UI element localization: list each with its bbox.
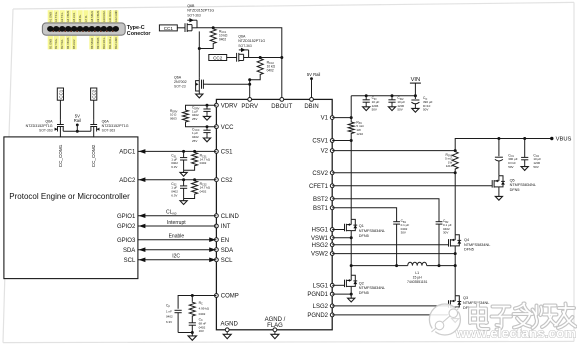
svg-text:CC1: CC1: [164, 26, 174, 31]
svg-text:VIN: VIN: [411, 77, 421, 83]
inductor L1 15uH: [408, 262, 427, 265]
svg-text:0402: 0402: [267, 69, 274, 73]
capacitor CO 390uF electrolytic: [411, 100, 419, 106]
svg-text:VDRV: VDRV: [221, 103, 238, 109]
svg-text:50V: 50V: [508, 165, 513, 169]
label Q4 NTMFS5834NL DFN5: [464, 238, 490, 252]
resistor RDRV 10 Ohm: [183, 109, 189, 123]
watermark elecfans logo circle: [429, 304, 460, 335]
wire VDRV net: [186, 104, 217, 109]
svg-text:Enable: Enable: [169, 234, 185, 240]
label CO 390uF 50V: [423, 96, 433, 111]
IC U1 bottom pins AGND and AGND/FLAG: [221, 317, 286, 332]
transistor Q4 NTMFS5834NL: [449, 235, 462, 253]
wire GPIO1 to CLIND (net CL_IND): [138, 213, 217, 218]
svg-text:AGND: AGND: [221, 322, 239, 328]
wire Q6B source down to Q6A-2N7002 drain: [198, 31, 200, 77]
svg-text:50V: 50V: [397, 108, 402, 112]
power 5V Rail at DBIN: [307, 72, 321, 99]
transistor Q6A NTZD3152PT1G (CC_COM2): [90, 120, 99, 137]
label CB1 0.1uF 0402 30V: [401, 219, 410, 234]
svg-text:NTMFS5834NL: NTMFS5834NL: [464, 243, 490, 247]
ground below CIN2: [388, 105, 395, 111]
svg-text:Protocol Engine or Microcontro: Protocol Engine or Microcontroller: [9, 192, 130, 201]
svg-text:ADC1: ADC1: [119, 150, 136, 156]
wire BST2 to CB2: [332, 199, 439, 222]
capacitor CC 68nF: [189, 317, 196, 334]
svg-text:BST2: BST2: [313, 197, 329, 203]
MCU pin labels: [117, 150, 136, 264]
svg-text:A4 VBUS: A4 VBUS: [66, 10, 70, 22]
capacitor CB1 0.1uF: [393, 222, 400, 267]
capacitor CIN2 10uF: [388, 96, 395, 105]
svg-text:B5 CC2: B5 CC2: [72, 39, 76, 49]
svg-text:A8 SBU1: A8 SBU1: [90, 10, 94, 22]
svg-text:SCL: SCL: [124, 258, 136, 264]
wire V2 net: [332, 149, 457, 152]
net label CC1 (rotated, left): [57, 88, 63, 100]
svg-text:DBIN: DBIN: [304, 104, 318, 110]
wire CC1 down to Q6A pair: [59, 100, 61, 120]
svg-text:GPIO2: GPIO2: [117, 224, 136, 230]
resistor RSV 5mOhm sense: [348, 121, 354, 135]
label Q6A NTZD3152PT1G SOT-363 (right): [102, 120, 129, 133]
ground below Q2: [348, 296, 355, 302]
wire CFET1 to Q5 gate: [332, 185, 492, 187]
label CVCC 1uF 0402 25V: [192, 127, 200, 142]
connector J1 Type-C receptacle body: [42, 23, 125, 35]
label RCC2 10k 0402: [267, 60, 276, 72]
svg-text:25V: 25V: [192, 139, 197, 143]
power 5V Rail (CC pair): [74, 113, 81, 132]
capacitor CS1 1uF: [180, 151, 187, 170]
svg-text:VSW2: VSW2: [311, 252, 329, 258]
ground below CDRV: [203, 114, 210, 120]
svg-text:SCL: SCL: [221, 258, 233, 264]
svg-text:VCC: VCC: [221, 125, 234, 131]
wire LSG2 to Q3 gate: [332, 305, 448, 307]
wire CSV2 net: [332, 170, 457, 235]
ground below Q3: [452, 316, 459, 322]
connector J1 bottom pin labels (B-side, highlighted): [48, 36, 119, 50]
svg-text:DFN5: DFN5: [359, 291, 369, 295]
transistor Q5 NTMFS5834NL: [492, 176, 505, 194]
svg-text:CS2: CS2: [221, 178, 233, 184]
label CB2 0.1uF 0402 30V: [443, 219, 452, 234]
svg-text:6.3V: 6.3V: [171, 193, 177, 197]
power terminal VIN: [410, 77, 421, 99]
svg-text:Q6A: Q6A: [174, 75, 182, 79]
capacitor CO1 390uF electrolytic: [495, 139, 503, 176]
svg-text:B11 RX1+: B11 RX1+: [108, 36, 112, 49]
capacitor CDRV 1uF: [203, 105, 210, 114]
wire CSV1 net: [332, 140, 351, 142]
svg-text:SDA: SDA: [123, 248, 135, 254]
IC U1 left pins: [215, 103, 240, 299]
label Q1 NTMFS5834NL DFN5: [359, 224, 385, 238]
ground below CO: [412, 106, 419, 112]
svg-text:ADC2: ADC2: [119, 178, 136, 184]
svg-text:PGND2: PGND2: [307, 313, 328, 319]
op-amp/controller IC U1 body: [216, 99, 332, 329]
wire RCC1 to Q6B source rail: [198, 45, 213, 51]
wire CC_COM2 into MCU: [93, 136, 95, 139]
label CO2 10uF 1206 50V: [533, 153, 541, 168]
label CS2 1uF 0402 6.3V: [171, 182, 178, 197]
svg-text:NTZD3152PT1G: NTZD3152PT1G: [238, 39, 265, 43]
label RCS1 14.7k 0402: [200, 154, 211, 166]
ground below 2N7002: [196, 92, 203, 98]
svg-text:0402: 0402: [166, 315, 173, 319]
svg-text:B1 GND: B1 GND: [48, 39, 52, 49]
wire CC1 to Q6B: [177, 27, 185, 29]
svg-text:A9 VBUS: A9 VBUS: [96, 10, 100, 22]
svg-text:CC2: CC2: [213, 55, 223, 60]
svg-text:B2 TX2+: B2 TX2+: [54, 38, 58, 49]
svg-text:Q6B: Q6B: [187, 4, 195, 8]
svg-text:DFN5: DFN5: [510, 188, 520, 192]
svg-text:HSG1: HSG1: [312, 228, 329, 234]
svg-text:SOT-363: SOT-363: [187, 14, 201, 18]
svg-text:B8 SBU2: B8 SBU2: [90, 37, 94, 49]
svg-text:SDA: SDA: [221, 248, 233, 254]
svg-text:CC2: CC2: [92, 89, 97, 98]
wire RCC2 to PDRV node: [248, 76, 260, 82]
svg-text:5V Rail: 5V Rail: [307, 72, 321, 77]
label CIN1 10uF 1206 50V: [372, 96, 380, 111]
svg-text:RC: RC: [199, 301, 203, 306]
svg-text:A11 RX2+: A11 RX2+: [108, 9, 112, 22]
svg-text:A7 D-: A7 D-: [84, 15, 88, 22]
svg-text:NTZD3152PT1G: NTZD3152PT1G: [102, 124, 129, 128]
svg-text:16V: 16V: [199, 329, 204, 333]
svg-text:6.3V: 6.3V: [171, 165, 177, 169]
resistor RSV2 5mOhm sense: [452, 151, 458, 170]
ground below CIN1: [363, 105, 370, 111]
svg-text:SOT-363: SOT-363: [39, 129, 53, 133]
svg-text:B10 RX1-: B10 RX1-: [102, 37, 106, 49]
capacitor CIN1 10uF: [363, 96, 370, 105]
svg-text:CLIND: CLIND: [221, 214, 240, 220]
svg-text:CS1: CS1: [221, 150, 233, 156]
svg-text:Q4: Q4: [464, 238, 469, 242]
net label CC2 (rotated, right): [91, 88, 97, 100]
connector J1 top pin labels (A1-A12, highlighted): [48, 9, 119, 22]
wire ADC to CS1 net: [138, 150, 217, 153]
IC U1 right pins: [307, 116, 334, 319]
label RSV2 5mOhm 1W 1210: [445, 153, 453, 168]
svg-text:COMP: COMP: [221, 294, 239, 300]
ground below CS2: [180, 199, 187, 205]
svg-text:A3 TX1-: A3 TX1-: [60, 12, 64, 22]
ground below CS1: [180, 170, 187, 176]
svg-text:Q5: Q5: [510, 178, 515, 182]
capacitor CS2 1uF: [180, 180, 187, 199]
label CP 1nF 0402 6.3V: [166, 304, 173, 324]
svg-text:SOT-23: SOT-23: [174, 85, 186, 89]
wire PGND2 net: [332, 313, 457, 316]
wire HSG1 to Q1 gate: [332, 229, 344, 231]
svg-text:DFN5: DFN5: [464, 248, 474, 252]
svg-text:CC_COM1: CC_COM1: [58, 144, 63, 167]
svg-text:FLAG: FLAG: [267, 323, 283, 329]
svg-text:50V: 50V: [372, 108, 377, 112]
label RSV 5mOhm 1W 1210: [356, 120, 364, 135]
svg-text:PDRV: PDRV: [241, 104, 258, 110]
svg-text:A6 D+: A6 D+: [78, 14, 82, 22]
wire Q6B drain to DBOUT (node DBOUT): [197, 26, 283, 99]
microcontroller block U2: [4, 137, 138, 279]
svg-text:EN: EN: [221, 238, 229, 244]
wire GPIO2 to INT (net Interrupt): [138, 224, 217, 229]
capacitor CVCC 1uF: [203, 127, 210, 136]
capacitor CP 1nF: [175, 310, 193, 332]
svg-text:A1 GND: A1 GND: [48, 12, 52, 22]
resistor RCS1 14.7k: [184, 151, 198, 170]
svg-text:PGND1: PGND1: [307, 292, 328, 298]
svg-text:B9 VBUS: B9 VBUS: [96, 37, 100, 49]
label Q3 NTMFS5834NL DFN5: [463, 296, 489, 310]
transistor Q6A NTZD3152PT1G (CC2 side): [237, 48, 249, 62]
capacitor CO2 10uF: [521, 139, 528, 165]
wire CC2 down to Q6A pair: [93, 100, 95, 120]
svg-text:1 nF: 1 nF: [166, 309, 172, 313]
svg-text:HSG2: HSG2: [312, 243, 329, 249]
wire BST1 to CB1: [332, 208, 396, 222]
wire PGND1 net: [332, 293, 353, 296]
ground below COMP network: [188, 333, 196, 341]
transistor Q1 NTMFS5834NL: [345, 219, 358, 237]
wire COMP net: [178, 294, 216, 309]
svg-text:A10 RX2-: A10 RX2-: [102, 10, 106, 22]
wire SDA net: [138, 247, 217, 252]
svg-text:0402: 0402: [219, 38, 226, 42]
svg-text:VSW1: VSW1: [311, 236, 329, 242]
svg-text:Conector: Conector: [127, 31, 152, 37]
ground below CO2: [521, 164, 528, 170]
svg-text:Type-C: Type-C: [127, 25, 145, 31]
svg-text:CC1: CC1: [58, 89, 63, 98]
svg-text:A5 CC1: A5 CC1: [72, 12, 76, 22]
wire VCC net: [186, 123, 217, 128]
svg-text:CSV1: CSV1: [312, 139, 328, 145]
svg-text:B3 TX2-: B3 TX2-: [60, 39, 64, 49]
ground below Q5: [495, 194, 502, 200]
svg-text:V1: V1: [321, 116, 329, 122]
wire GPIO3 to EN (net Enable): [138, 237, 217, 242]
wire 2N7002 gate to PDRV node: [208, 83, 250, 85]
label Q6A NTZD3152PT1G SOT-363: [238, 34, 265, 48]
svg-text:V2: V2: [321, 149, 329, 155]
wire Q2 drain to switch node: [350, 266, 352, 276]
transistor Q2 NTMFS5834NL: [345, 275, 358, 293]
net label CC1 (top): [159, 25, 177, 31]
transistor Q6B NTZD3152PT1G: [185, 18, 197, 32]
svg-text:SOT-363: SOT-363: [238, 44, 252, 48]
label CDRV 1uF 0402 25V: [192, 106, 200, 121]
svg-text:74403551151: 74403551151: [407, 280, 428, 284]
svg-text:www.elecfans.com: www.elecfans.com: [455, 326, 577, 341]
label Q6A NTZD3152PT1G SOT-363 (left): [26, 120, 54, 133]
label RCC1 10k 0402: [219, 29, 228, 41]
svg-text:NTZD3152PT1G: NTZD3152PT1G: [187, 9, 214, 13]
wire ADC to CS2 net: [138, 178, 217, 181]
wire V1 net: [332, 116, 353, 119]
wire VIN rail to V1: [351, 94, 417, 121]
wire CC_COM1 into MCU: [59, 136, 61, 139]
capacitor CB2 0.1uF: [436, 222, 443, 267]
svg-text:50V: 50V: [423, 108, 428, 112]
wire node PDRV vertical: [248, 80, 251, 100]
svg-text:1210: 1210: [446, 164, 453, 168]
svg-text:Q6A: Q6A: [102, 120, 110, 124]
svg-text:SOT-363: SOT-363: [102, 129, 116, 133]
svg-text:GPIO1: GPIO1: [117, 214, 136, 220]
wire RSV to CSV1 and down to Q1: [350, 135, 353, 220]
arrow into MCU (ADC1): [139, 149, 146, 154]
svg-text:0402: 0402: [200, 190, 207, 194]
svg-text:CC_COM2: CC_COM2: [91, 144, 96, 167]
svg-text:Rail: Rail: [74, 118, 81, 123]
wire VSW2 net: [332, 252, 457, 266]
svg-text:Interrupt: Interrupt: [167, 220, 186, 226]
IC U1 top pins PDRV DBOUT DBIN: [241, 98, 318, 111]
svg-text:0402: 0402: [200, 161, 207, 165]
label RDRV 10 0603: [170, 109, 178, 121]
label Q6A 2N7002 SOT-23: [174, 75, 187, 88]
label L1 15uH 74403551151: [407, 271, 428, 284]
svg-text:NTZD3152PT1G: NTZD3152PT1G: [26, 124, 53, 128]
wire switch node to L1 (left): [350, 264, 408, 267]
label CS1 1uF 0402 6.3V: [171, 154, 178, 169]
svg-text:B12 GND: B12 GND: [114, 37, 118, 49]
label CO1 390uF 50V: [508, 153, 518, 168]
svg-text:VBUS: VBUS: [556, 137, 572, 143]
arrow into MCU (ADC2): [139, 177, 146, 182]
label Q6B NTZD3152PT1G SOT-363: [187, 4, 214, 18]
svg-text:CSV2: CSV2: [312, 171, 328, 177]
wire 5V rail between Q6A pair: [63, 130, 91, 132]
resistor RCC1 10k: [210, 28, 216, 45]
resistor RCC2 10k: [257, 58, 263, 76]
svg-text:I2C: I2C: [172, 253, 180, 259]
svg-text:30V: 30V: [443, 231, 448, 235]
svg-text:LSG2: LSG2: [313, 304, 329, 310]
svg-text:NTMFS5834NL: NTMFS5834NL: [359, 286, 385, 290]
svg-text:LSG1: LSG1: [313, 283, 329, 289]
svg-text:BST1: BST1: [313, 206, 329, 212]
svg-text:50V: 50V: [533, 165, 538, 169]
svg-text:30V: 30V: [401, 231, 406, 235]
svg-text:A2 TX1+: A2 TX1+: [54, 11, 58, 22]
svg-text:4.99 kΩ: 4.99 kΩ: [199, 307, 210, 311]
svg-text:A12 GND: A12 GND: [114, 10, 118, 22]
transistor Q3 NTMFS5834NL: [449, 296, 462, 314]
svg-text:INT: INT: [221, 224, 231, 230]
label CIN2 10uF 1206 50V: [397, 96, 405, 111]
ground at AGND: [223, 332, 231, 339]
ground below CVCC: [203, 136, 210, 142]
svg-text:AGND /: AGND /: [265, 317, 286, 323]
svg-text:0402: 0402: [199, 312, 206, 316]
svg-text:1210: 1210: [356, 132, 363, 136]
resistor RC 4.99k: [189, 296, 195, 318]
label Q2 NTMFS5834NL DFN5: [359, 281, 385, 295]
svg-text:L1: L1: [415, 271, 419, 275]
svg-text:Q3: Q3: [463, 296, 468, 300]
wire SCL net: [138, 258, 217, 263]
wire switch node to L1 (right): [427, 264, 457, 267]
svg-text:NTMFS5834NL: NTMFS5834NL: [510, 183, 536, 187]
wire Q3 drain from switch node: [454, 266, 456, 296]
svg-text:Q6A: Q6A: [238, 34, 246, 38]
connector label "Type-C Conector": [127, 25, 152, 37]
svg-text:25V: 25V: [192, 117, 197, 121]
svg-text:2N7002: 2N7002: [174, 80, 187, 84]
ground at AGND/FLAG: [271, 332, 279, 339]
resistor RCS2 14.7k: [184, 180, 198, 199]
svg-text:DFN5: DFN5: [359, 234, 369, 238]
svg-text:B4 VBUS: B4 VBUS: [66, 37, 70, 49]
net label CC2: [209, 55, 227, 61]
svg-text:GPIO3: GPIO3: [117, 238, 136, 244]
label Q5 NTMFS5834NL DFN5: [510, 178, 536, 192]
wire VSW1 net: [332, 236, 353, 265]
svg-text:NTMFS5834NL: NTMFS5834NL: [359, 229, 385, 233]
wire Q6A output to DBOUT node: [249, 56, 282, 59]
watermark chinese glyphs: [470, 304, 576, 330]
label RC 4.99k 0402: [199, 301, 210, 316]
label RCS2 14.7k 0402: [200, 182, 211, 194]
wire LSG1 to Q2 gate: [332, 284, 344, 286]
svg-text:CFET1: CFET1: [309, 184, 329, 190]
svg-text:Q6A: Q6A: [45, 120, 53, 124]
svg-text:Q1: Q1: [359, 224, 364, 228]
transistor Q6A NTZD3152PT1G (CC_COM1): [55, 120, 64, 137]
svg-text:6.3V: 6.3V: [166, 320, 172, 324]
transistor Q6A 2N7002: [196, 78, 208, 92]
svg-text:15 µH: 15 µH: [413, 276, 423, 280]
wire CC2 to Q6A: [227, 57, 237, 59]
svg-text:DBOUT: DBOUT: [271, 104, 292, 110]
wire VBUS rail: [455, 137, 553, 151]
svg-text:Q2: Q2: [359, 281, 364, 285]
svg-text:0603: 0603: [170, 116, 177, 120]
wire HSG2 to Q4 gate: [332, 244, 448, 246]
label CC 68nF 0402 16V: [199, 317, 207, 333]
